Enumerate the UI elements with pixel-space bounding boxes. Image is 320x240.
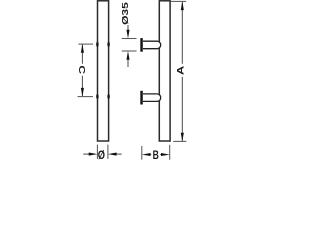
dimension A extension line top: [171, 0, 186, 2]
post 2 barrel: [143, 94, 161, 102]
mount bump top-right: [107, 42, 110, 47]
dimension diameter tail right: [114, 153, 122, 155]
dimension diameter arrowhead left-pointing: [108, 153, 117, 156]
dimension C extension line bottom: [78, 96, 94, 98]
mount bump top-left: [96, 42, 99, 47]
dimension C arrowhead up: [81, 44, 84, 53]
dimension d35 arrowhead down: [126, 30, 129, 39]
svg-text:A: A: [176, 66, 186, 75]
post 1 flange: [140, 38, 143, 52]
dimension d35 stem top: [127, 25, 129, 32]
dimension d35 extension line bottom: [122, 50, 137, 52]
dimension C line lower segment: [81, 76, 83, 97]
dimension B extension line right: [169, 145, 171, 160]
dimension d35 extension line top: [122, 38, 137, 40]
dimension diameter extension line left: [96, 145, 98, 159]
dimension diameter tail left: [83, 153, 91, 155]
dimension B line left segment: [148, 154, 151, 156]
mount bump bottom-right: [107, 94, 110, 99]
dimension A line upper segment: [181, 2, 183, 64]
dimension B arrowhead left-pointing: [142, 153, 151, 156]
dimension diameter arrowhead right-pointing: [89, 153, 98, 156]
dimension C arrowhead down: [81, 88, 84, 97]
dimension A line lower segment: [181, 77, 183, 141]
dimension B arrowhead right-pointing: [161, 153, 170, 156]
dimension A arrowhead down: [181, 133, 184, 142]
svg-text:Ø35: Ø35: [121, 2, 130, 25]
dimension B line right segment: [160, 154, 163, 156]
dimension d35 stem bottom: [127, 57, 129, 67]
mount bump bottom-left: [96, 94, 99, 99]
dimension C extension line top: [78, 43, 93, 45]
post 1 barrel: [143, 41, 161, 49]
handle bar front view: [98, 1, 109, 141]
svg-text:C: C: [76, 65, 85, 74]
post 2 flange: [140, 91, 143, 105]
handle bar side view: [159, 1, 170, 141]
dimension diameter extension line right: [107, 145, 109, 159]
dimension d35 arrowhead up: [126, 51, 129, 60]
svg-text:B: B: [153, 150, 160, 160]
dimension C line upper segment: [81, 44, 83, 63]
dimension B extension line left: [141, 146, 143, 160]
dimension A arrowhead up: [181, 1, 184, 10]
svg-text:Ø: Ø: [98, 149, 105, 160]
dimension A extension line bottom: [173, 140, 186, 142]
